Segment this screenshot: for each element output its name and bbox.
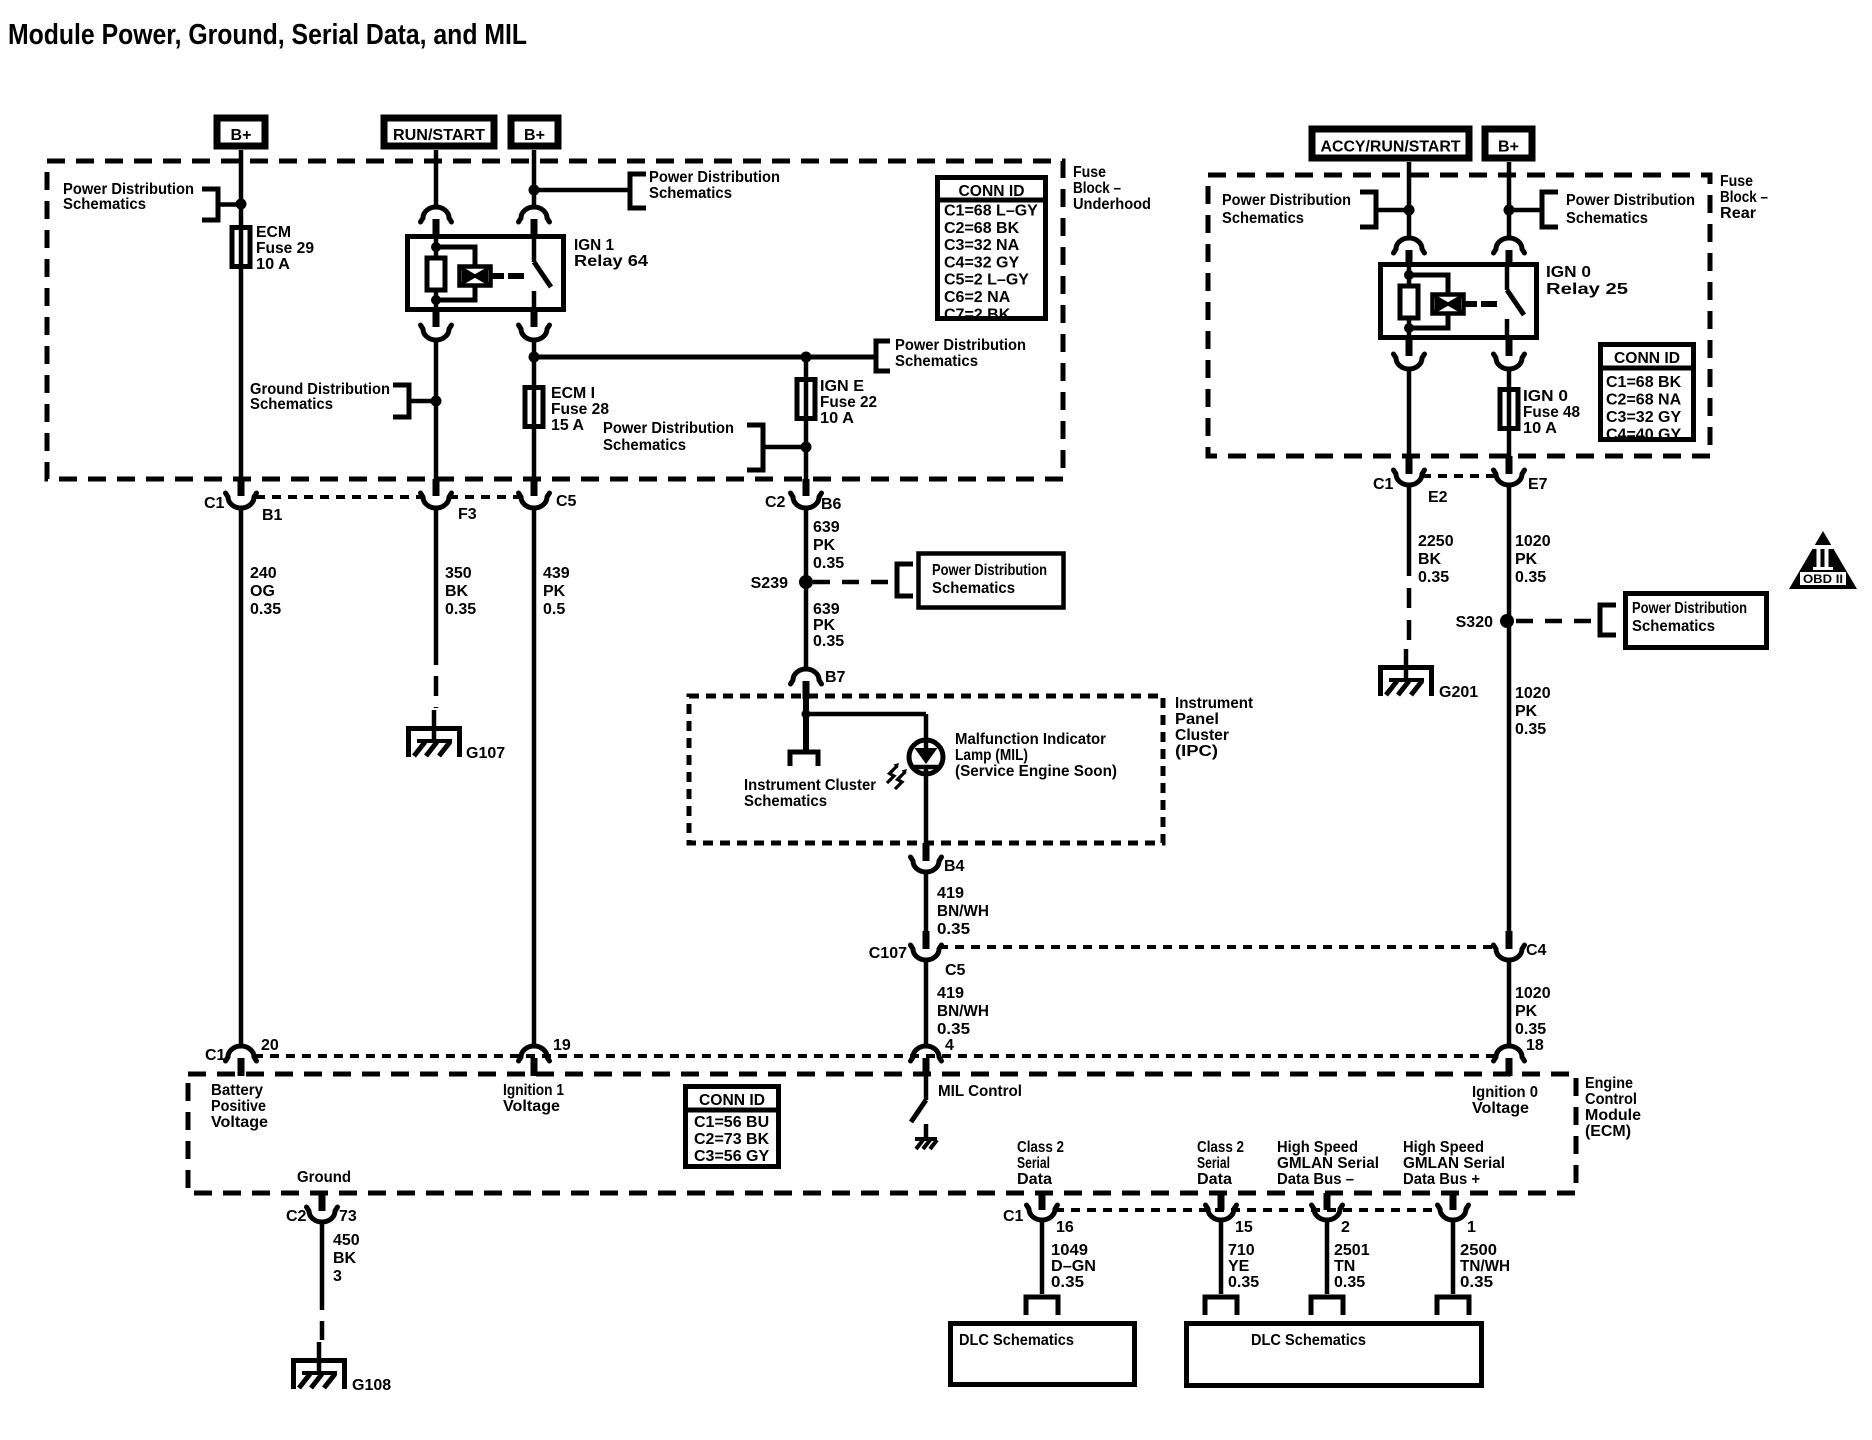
svg-text:(Service Engine Soon): (Service Engine Soon) [955, 763, 1117, 780]
svg-text:2250: 2250 [1418, 533, 1454, 550]
wire B+ left feed down to fuse 29 [239, 150, 244, 225]
svg-text:TN: TN [1334, 1258, 1355, 1275]
ground G107 [409, 729, 460, 758]
connector C4 stub [1506, 931, 1513, 949]
svg-text:15: 15 [1235, 1219, 1253, 1236]
svg-text:Schematics: Schematics [932, 580, 1015, 597]
svg-text:Schematics: Schematics [1222, 210, 1304, 227]
svg-text:419: 419 [937, 985, 964, 1002]
wire bus junction down to fuse 22 [804, 357, 809, 377]
svg-text:OBD II: OBD II [1803, 574, 1843, 586]
svg-text:10 A: 10 A [256, 256, 290, 273]
svg-text:Schematics: Schematics [63, 196, 146, 213]
pointer bracket to DLC [1205, 1297, 1237, 1315]
svg-text:0.35: 0.35 [445, 601, 476, 618]
connector ECM serial pin 2 [1324, 1193, 1331, 1210]
svg-text:GMLAN Serial: GMLAN Serial [1403, 1155, 1505, 1172]
svg-text:BK: BK [333, 1250, 357, 1267]
svg-text:C5: C5 [945, 962, 966, 979]
wire 419 BN/WH lower [924, 960, 929, 1046]
fuse ECM I Fuse 28 15A [532, 385, 537, 429]
svg-text:Power Distribution: Power Distribution [1632, 600, 1747, 617]
svg-text:C4=32 GY: C4=32 GY [944, 254, 1019, 271]
connector E7 stub [1506, 456, 1513, 474]
svg-text:20: 20 [261, 1037, 279, 1054]
svg-text:GMLAN Serial: GMLAN Serial [1277, 1155, 1379, 1172]
wire MIL lamp down to B4 [924, 770, 929, 845]
connector C4 inline [1494, 945, 1525, 960]
connector F3 (fuse block bottom) [421, 493, 452, 508]
node splice S239 [799, 575, 813, 589]
svg-text:G107: G107 [466, 745, 505, 762]
terminal B+ (second) [511, 118, 558, 146]
inline connector dashed line C1-E7 [1422, 474, 1496, 478]
svg-text:73: 73 [339, 1208, 357, 1225]
svg-text:Malfunction Indicator: Malfunction Indicator [955, 731, 1106, 748]
svg-text:Control: Control [1585, 1091, 1637, 1108]
connector C107 stub [923, 931, 930, 949]
pointer bracket Instrument Cluster Schematics [790, 752, 818, 766]
connector F3 stub [433, 479, 440, 496]
svg-text:439: 439 [543, 565, 570, 582]
svg-text:10 A: 10 A [1523, 420, 1557, 437]
relay IGN 1 Relay 64 [408, 237, 564, 310]
svg-text:Block –: Block – [1720, 189, 1768, 206]
svg-text:Serial: Serial [1197, 1155, 1230, 1172]
fuse block underhood dashed boundary [47, 161, 1063, 479]
svg-text:4: 4 [945, 1037, 954, 1054]
svg-text:0.35: 0.35 [937, 1021, 970, 1038]
terminal RUN/START [384, 118, 494, 146]
wire fuse 29 to connector C1/B1 [239, 269, 244, 481]
connector ECM ground stub [319, 1193, 326, 1211]
connector relay 25 switch bottom [1506, 339, 1513, 356]
svg-text:CONN ID: CONN ID [959, 183, 1025, 200]
switch MIL control driver inside ECM [924, 1076, 929, 1100]
svg-text:Power Distribution: Power Distribution [603, 420, 734, 437]
svg-text:ECM I: ECM I [551, 385, 595, 402]
wire 2250 BK down [1407, 485, 1412, 556]
svg-text:Fuse 48: Fuse 48 [1523, 404, 1580, 421]
svg-text:G201: G201 [1439, 684, 1478, 701]
svg-text:D–GN: D–GN [1051, 1258, 1096, 1275]
connector C5 (fuse block bottom) [519, 493, 550, 508]
connector ECM pin 4 [911, 1046, 942, 1061]
wire relay switch to bus junction and fuse 28 [532, 340, 537, 385]
svg-text:Fuse 28: Fuse 28 [551, 401, 609, 418]
svg-text:0.5: 0.5 [543, 601, 565, 618]
CONN ID table (fuse block rear) [1601, 345, 1694, 440]
svg-text:0.35: 0.35 [813, 633, 844, 650]
svg-text:S320: S320 [1456, 614, 1493, 631]
svg-text:0.35: 0.35 [1334, 1274, 1365, 1291]
svg-text:OG: OG [250, 583, 275, 600]
symbol OBD II [1789, 531, 1857, 589]
lamp MIL indicator (LED in circle) [909, 740, 943, 774]
svg-text:S239: S239 [751, 575, 788, 592]
pointer bracket to DLC [1026, 1297, 1058, 1315]
connector ECM serial pin 1 [1450, 1193, 1457, 1210]
svg-text:C2: C2 [765, 494, 786, 511]
svg-text:IGN 0: IGN 0 [1523, 388, 1568, 405]
wire 1049 D-GN [1040, 1220, 1045, 1294]
pointer bracket to DLC [1311, 1297, 1343, 1315]
svg-text:C107: C107 [869, 945, 907, 962]
svg-text:16: 16 [1056, 1219, 1074, 1236]
node splice S320 [1500, 614, 1514, 628]
svg-text:C1: C1 [205, 1047, 226, 1064]
svg-text:Ignition 1: Ignition 1 [503, 1082, 564, 1099]
svg-text:0.35: 0.35 [937, 921, 970, 938]
svg-text:C1=56 BU: C1=56 BU [694, 1114, 769, 1131]
wire 419 BN/WH upper [924, 872, 929, 933]
connector relay 64 coil top [421, 207, 452, 222]
svg-text:Schematics: Schematics [250, 396, 333, 413]
svg-text:C1: C1 [1373, 476, 1394, 493]
wire relay 25 switch to fuse 48 [1507, 369, 1512, 387]
node ground distribution tap (436,401) [431, 396, 442, 407]
wire 350 BK down [434, 508, 439, 645]
node power distribution tap (534,190) [529, 185, 540, 196]
svg-text:Ignition 0: Ignition 0 [1472, 1084, 1538, 1101]
wire RUN/START down to relay connector [434, 150, 439, 208]
svg-text:BK: BK [445, 583, 469, 600]
fuse block rear dashed boundary [1208, 175, 1710, 456]
inline connector dashed line ECM pins 20-19-4-18 [254, 1054, 1496, 1058]
svg-text:C3=56 GY: C3=56 GY [694, 1148, 769, 1165]
terminal ACCY/RUN/START [1312, 129, 1469, 158]
svg-text:(IPC): (IPC) [1175, 743, 1218, 760]
svg-text:C4=40 GY: C4=40 GY [1606, 427, 1681, 444]
svg-text:C5=2 L–GY: C5=2 L–GY [944, 272, 1029, 289]
connector ECM pin 20 (C1) [226, 1046, 257, 1061]
svg-text:C1: C1 [1003, 1208, 1024, 1225]
svg-text:C5: C5 [556, 493, 577, 510]
connector relay 25 switch top [1494, 238, 1525, 253]
svg-text:Lamp (MIL): Lamp (MIL) [955, 747, 1028, 764]
wire 240 OG down to ECM pin 20 [239, 508, 244, 1046]
svg-text:PK: PK [543, 583, 566, 600]
terminal B+ (left) [217, 118, 265, 146]
box Power Distribution Schematics (S320) [1626, 594, 1767, 648]
svg-text:15 A: 15 A [551, 417, 584, 434]
svg-text:Data: Data [1017, 1171, 1052, 1188]
svg-text:1020: 1020 [1515, 685, 1551, 702]
svg-text:0.35: 0.35 [1051, 1274, 1084, 1291]
relay IGN 0 Relay 25 [1381, 265, 1537, 338]
svg-text:Voltage: Voltage [211, 1114, 268, 1131]
svg-text:Schematics: Schematics [1632, 618, 1715, 635]
svg-text:Power Distribution: Power Distribution [932, 562, 1047, 579]
svg-text:Power Distribution: Power Distribution [1566, 192, 1695, 209]
svg-text:YE: YE [1228, 1258, 1250, 1275]
svg-text:2501: 2501 [1334, 1242, 1370, 1259]
svg-text:ECM: ECM [256, 224, 291, 241]
svg-text:Rear: Rear [1720, 205, 1756, 222]
svg-text:ACCY/RUN/START: ACCY/RUN/START [1321, 139, 1461, 156]
svg-text:639: 639 [813, 519, 840, 536]
connector E7 (rear fuse block bottom) [1494, 470, 1525, 485]
svg-text:BK: BK [1418, 551, 1442, 568]
svg-text:C2=68 BK: C2=68 BK [944, 220, 1020, 237]
svg-text:0.35: 0.35 [1515, 1021, 1546, 1038]
wire 450 BK down [320, 1222, 325, 1290]
lamp illumination arrows [887, 766, 898, 784]
svg-text:Block –: Block – [1073, 180, 1121, 197]
svg-text:F3: F3 [458, 506, 477, 523]
pointer dashed to Power Distribution Schematics box (S239) [897, 564, 913, 596]
svg-text:B+: B+ [1498, 139, 1519, 156]
svg-text:B4: B4 [944, 858, 965, 875]
svg-text:710: 710 [1228, 1242, 1255, 1259]
wire 2501 TN [1325, 1220, 1330, 1294]
svg-text:CONN ID: CONN ID [699, 1092, 765, 1109]
wire 639 PK lower [804, 582, 809, 670]
pointer Power Distribution Schematics (rear right) [1542, 192, 1558, 227]
connector relay 25 coil bottom [1406, 339, 1413, 356]
svg-text:E2: E2 [1428, 489, 1448, 506]
node power distribution tap (1409,210) [1404, 205, 1415, 216]
svg-text:High Speed: High Speed [1403, 1139, 1484, 1156]
wire across IPC to MIL lamp [806, 712, 926, 717]
engine control module dashed boundary (ECM) [188, 1074, 1576, 1193]
node junction at power distribution tap (241,204) [236, 199, 247, 210]
svg-text:240: 240 [250, 565, 277, 582]
wire 2500 TN/WH [1451, 1220, 1456, 1294]
svg-text:0.35: 0.35 [250, 601, 281, 618]
wire relay coil to F3 [434, 340, 439, 481]
connector C1/E2 (rear fuse block bottom) [1394, 470, 1425, 485]
svg-text:Schematics: Schematics [1566, 210, 1648, 227]
pointer Power Distribution Schematics (bus right end) [876, 341, 890, 371]
svg-text:IGN 1: IGN 1 [574, 237, 614, 254]
node bus junction above fuse 22 (806,357) [801, 352, 812, 363]
box DLC Schematics (left) [951, 1324, 1135, 1385]
svg-text:0.35: 0.35 [1515, 569, 1546, 586]
connector ECM serial pin 16 [1039, 1193, 1046, 1210]
svg-text:Panel: Panel [1175, 711, 1219, 728]
svg-text:B7: B7 [825, 669, 846, 686]
inline connector dashed line C1/B1-F3-C5 [256, 495, 423, 499]
node bus junction (534,357) [529, 352, 540, 363]
svg-text:BN/WH: BN/WH [937, 1003, 989, 1020]
wire 1020 PK down to S320 [1507, 485, 1512, 621]
svg-text:Positive: Positive [211, 1098, 266, 1115]
svg-text:Relay 64: Relay 64 [574, 253, 648, 270]
wire 1020 PK down to C4 [1507, 621, 1512, 933]
svg-text:1: 1 [1467, 1219, 1476, 1236]
connector C1/E2 stub [1406, 456, 1413, 474]
svg-text:DLC Schematics: DLC Schematics [959, 1332, 1074, 1349]
svg-text:639: 639 [813, 601, 840, 618]
svg-text:Power Distribution: Power Distribution [1222, 192, 1351, 209]
wire relay 25 coil to C1/E2 [1407, 369, 1412, 458]
svg-text:PK: PK [1515, 551, 1538, 568]
connector ECM pin 19 [519, 1046, 550, 1061]
svg-text:Module Power, Ground, Serial D: Module Power, Ground, Serial Data, and M… [8, 19, 527, 51]
svg-text:Battery: Battery [211, 1082, 263, 1099]
svg-text:Fuse: Fuse [1720, 173, 1753, 190]
svg-text:C2: C2 [286, 1208, 307, 1225]
connector relay 64 coil bottom [433, 311, 440, 327]
wire fuse 28 to C5 [532, 427, 537, 481]
ground MIL control (ECM internal) [915, 1137, 937, 1141]
svg-text:450: 450 [333, 1232, 360, 1249]
wire dashed to ground G201 [1407, 556, 1412, 647]
svg-text:B6: B6 [821, 496, 842, 513]
wire ACCY/RUN/START down to relay 25 [1407, 162, 1412, 239]
wire fuse 48 to E7 [1507, 431, 1512, 458]
svg-text:Instrument: Instrument [1175, 695, 1254, 712]
wire bus to power distribution pointer (y=357) [534, 355, 874, 360]
svg-text:Underhood: Underhood [1073, 196, 1151, 213]
svg-text:419: 419 [937, 885, 964, 902]
svg-text:High Speed: High Speed [1277, 1139, 1358, 1156]
box DLC Schematics (right) [1187, 1324, 1482, 1386]
connector relay 64 switch bottom [531, 311, 538, 327]
svg-text:Fuse 22: Fuse 22 [820, 394, 877, 411]
svg-text:BN/WH: BN/WH [937, 903, 989, 920]
svg-text:0.35: 0.35 [1460, 1274, 1493, 1291]
connector C2/B6 stub [803, 479, 810, 496]
svg-text:Power Distribution: Power Distribution [895, 337, 1026, 354]
connector relay 25 coil top [1394, 238, 1425, 253]
svg-text:DLC Schematics: DLC Schematics [1251, 1332, 1366, 1349]
fuse ECM Fuse 29 10A [239, 225, 244, 269]
pointer bracket to DLC [1437, 1297, 1469, 1315]
connector ECM serial pin 15 [1218, 1193, 1225, 1210]
connector B4 (IPC bottom) [911, 857, 942, 872]
inline connector dashed line serial data pins [1055, 1208, 1440, 1212]
connector C1/B1 (fuse block bottom) [226, 493, 257, 508]
svg-text:10 A: 10 A [820, 410, 854, 427]
connector B4 stub [923, 843, 930, 861]
svg-text:1020: 1020 [1515, 533, 1551, 550]
svg-text:C1: C1 [204, 495, 225, 512]
wire B+ second down to relay switch [532, 150, 537, 208]
svg-text:Schematics: Schematics [744, 793, 827, 810]
svg-text:PK: PK [1515, 1003, 1538, 1020]
CONN ID table (ECM) [686, 1087, 779, 1167]
wire 639 PK upper [804, 508, 809, 582]
ground G201 [1381, 668, 1432, 697]
instrument panel cluster dashed boundary (IPC) [689, 696, 1163, 843]
wire 1020 PK down to ECM pin 18 [1507, 960, 1512, 1046]
svg-text:Class 2: Class 2 [1197, 1139, 1244, 1156]
pointer dashed to Power Distribution Schematics box (S320) [1600, 605, 1616, 635]
svg-text:C1=68 BK: C1=68 BK [1606, 374, 1682, 391]
ground G108 [294, 1361, 345, 1390]
svg-text:Ground: Ground [297, 1169, 351, 1186]
svg-text:0.35: 0.35 [813, 555, 844, 572]
svg-text:1020: 1020 [1515, 985, 1551, 1002]
svg-text:Voltage: Voltage [503, 1098, 560, 1115]
svg-text:0.35: 0.35 [1228, 1274, 1259, 1291]
connector C1/B1 stub [238, 479, 245, 496]
svg-text:Data: Data [1197, 1171, 1232, 1188]
svg-text:3: 3 [333, 1268, 342, 1285]
svg-text:C6=2 NA: C6=2 NA [944, 289, 1011, 306]
svg-text:Schematics: Schematics [895, 353, 978, 370]
box Power Distribution Schematics (S239) [919, 554, 1064, 608]
pointer Power Distribution Schematics (top middle) [630, 174, 646, 208]
wire 439 PK down to ECM pin 19 [532, 508, 537, 1046]
wire fuse 22 to C2/B6 [804, 421, 809, 481]
inline connector dashed line C107 to C4 [939, 945, 1496, 949]
svg-text:2: 2 [1341, 1219, 1350, 1236]
connector ECM pin 18 [1494, 1046, 1525, 1061]
svg-text:C2=73 BK: C2=73 BK [694, 1131, 770, 1148]
svg-text:Schematics: Schematics [649, 185, 732, 202]
wire down to MIL lamp [924, 714, 929, 742]
svg-text:Voltage: Voltage [1472, 1100, 1529, 1117]
wire 710 YE [1219, 1220, 1224, 1294]
svg-text:C7=2 BK: C7=2 BK [944, 306, 1011, 323]
connector C2/B6 (fuse block bottom) [791, 493, 822, 508]
svg-text:Instrument Cluster: Instrument Cluster [744, 777, 876, 794]
svg-text:Power Distribution: Power Distribution [649, 169, 780, 186]
svg-text:350: 350 [445, 565, 472, 582]
svg-text:Engine: Engine [1585, 1075, 1633, 1092]
svg-text:B+: B+ [231, 127, 252, 144]
fuse IGN 0 Fuse 48 10A [1507, 387, 1512, 431]
svg-text:B1: B1 [262, 507, 283, 524]
svg-text:PK: PK [813, 537, 836, 554]
connector relay 64 switch top [519, 207, 550, 222]
svg-text:Fuse: Fuse [1073, 164, 1106, 181]
svg-text:PK: PK [1515, 703, 1538, 720]
svg-text:C3=32 GY: C3=32 GY [1606, 409, 1681, 426]
svg-text:C3=32 NA: C3=32 NA [944, 237, 1020, 254]
svg-text:C1=68 L–GY: C1=68 L–GY [944, 203, 1038, 220]
svg-text:0.35: 0.35 [1515, 721, 1546, 738]
connector C2/73 (ECM bottom) [307, 1207, 338, 1222]
svg-text:Class 2: Class 2 [1017, 1139, 1064, 1156]
connector C5 stub [531, 479, 538, 496]
svg-text:E7: E7 [1528, 476, 1548, 493]
svg-text:18: 18 [1526, 1037, 1544, 1054]
svg-text:1049: 1049 [1051, 1242, 1088, 1259]
svg-text:0.35: 0.35 [1418, 569, 1449, 586]
svg-text:RUN/START: RUN/START [393, 127, 485, 144]
svg-text:IGN 0: IGN 0 [1546, 264, 1591, 281]
svg-text:Cluster: Cluster [1175, 727, 1229, 744]
svg-text:Data Bus –: Data Bus – [1277, 1171, 1354, 1188]
wire dashed to ground G107 [434, 645, 439, 708]
wire B7 junction inside IPC [803, 699, 809, 750]
svg-text:B+: B+ [524, 127, 545, 144]
svg-text:Module: Module [1585, 1107, 1641, 1124]
svg-text:2500: 2500 [1460, 1242, 1497, 1259]
connector B7 into IPC [791, 669, 822, 684]
fuse IGN E Fuse 22 10A [804, 377, 809, 421]
svg-text:C4: C4 [1526, 942, 1547, 959]
wire dashed to ground G108 [320, 1290, 325, 1340]
svg-text:Fuse 29: Fuse 29 [256, 240, 314, 257]
node power distribution tap (1509,210) [1504, 205, 1515, 216]
svg-text:Data Bus +: Data Bus + [1403, 1171, 1480, 1188]
svg-text:PK: PK [813, 617, 836, 634]
svg-text:Schematics: Schematics [603, 437, 686, 454]
svg-text:TN/WH: TN/WH [1460, 1258, 1510, 1275]
node pointer tap (806,447) [801, 442, 812, 453]
svg-text:19: 19 [553, 1037, 571, 1054]
svg-text:(ECM): (ECM) [1585, 1123, 1631, 1140]
svg-text:G108: G108 [352, 1377, 391, 1394]
wire B+ right down to relay 25 [1507, 162, 1512, 239]
svg-text:MIL Control: MIL Control [938, 1083, 1022, 1100]
svg-text:Serial: Serial [1017, 1155, 1050, 1172]
